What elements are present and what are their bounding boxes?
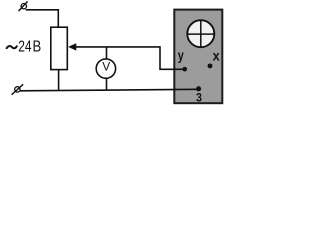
- wire: bottom rail to oscilloscope ground: [20, 89, 199, 91]
- terminal X2 (bottom clamp): [12, 84, 24, 94]
- wire: voltmeter top stub: [106, 47, 108, 59]
- wire: top terminal to potentiometer top: [26, 10, 59, 27]
- source label ~24 V : tilde: [6, 46, 17, 49]
- terminal X1 (top clamp): [19, 1, 28, 11]
- svg-text:В: В: [33, 39, 42, 56]
- node 3 (oscilloscope ground terminal dot): [196, 86, 201, 91]
- oscilloscope body U1: [174, 10, 222, 104]
- oscilloscope screen: [187, 20, 214, 47]
- wire: voltmeter bottom stub: [106, 78, 108, 90]
- svg-text:x: x: [213, 48, 221, 64]
- source label ~24 V : text: [18, 37, 32, 55]
- wire: potentiometer bottom to bottom rail: [58, 70, 60, 91]
- wire: wiper to oscilloscope Y input: [76, 47, 185, 69]
- node y (oscilloscope Y input dot): [182, 67, 187, 72]
- label x: [213, 48, 221, 64]
- voltmeter V1: [96, 59, 115, 78]
- svg-text:3: 3: [196, 92, 202, 105]
- svg-text:24: 24: [18, 37, 32, 55]
- wiper arrow head: [68, 43, 76, 50]
- label y: [178, 48, 184, 63]
- label 3: [196, 92, 202, 105]
- node x (oscilloscope X input dot): [208, 63, 213, 68]
- svg-text:y: y: [178, 48, 184, 63]
- potentiometer R1 body: [51, 27, 68, 69]
- svg-text:V: V: [102, 60, 110, 74]
